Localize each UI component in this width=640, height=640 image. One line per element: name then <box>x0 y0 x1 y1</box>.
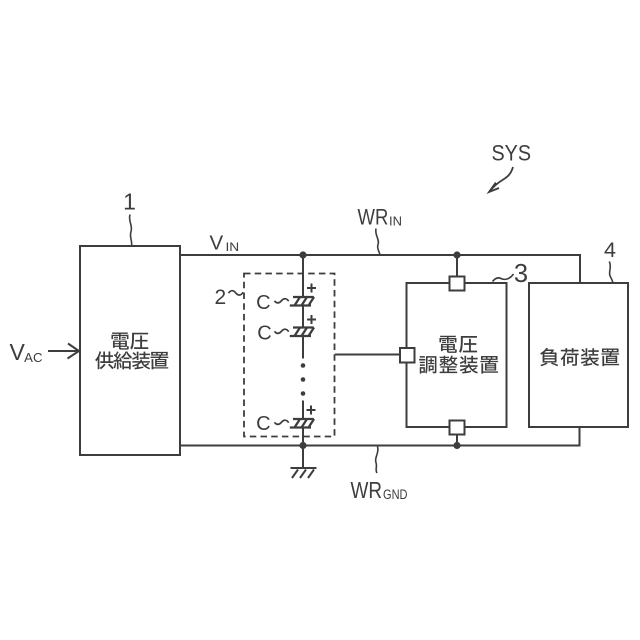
leader squiggle WR_GND <box>376 447 378 474</box>
label 電圧 (box3 line1) <box>439 336 477 353</box>
ground <box>291 468 317 478</box>
wire below capacitor C2 <box>302 336 304 359</box>
arrow V_AC input into box1 <box>48 344 79 359</box>
block 3: voltage adjustment device box <box>407 283 507 427</box>
terminal square top of box3 <box>450 277 465 291</box>
svg-text:C: C <box>257 323 271 345</box>
leader squiggle C3 <box>275 420 289 424</box>
svg-text:4: 4 <box>604 238 616 262</box>
block 1: voltage supply device box <box>80 246 180 455</box>
label 負荷装置 (box4) <box>540 348 619 366</box>
terminal square left of box3 <box>400 348 415 363</box>
arrow SYS pointing to system <box>489 167 513 192</box>
svg-text:SYS: SYS <box>492 141 532 166</box>
leader squiggle C1 <box>275 299 289 303</box>
node bottom bus / box3 junction <box>453 442 460 449</box>
label 供給装置 (box1 line2) <box>95 351 168 369</box>
wire above capacitor C3 <box>302 401 304 420</box>
node V_IN / capacitor chain junction <box>299 251 306 258</box>
svg-text:IN: IN <box>226 240 240 254</box>
label 電圧 (box1 line1) <box>111 332 148 349</box>
svg-text:WR: WR <box>358 205 389 230</box>
capacitor module 2: dashed box <box>244 274 335 437</box>
leader squiggle for 3 <box>493 274 514 282</box>
svg-text:GND: GND <box>383 487 408 502</box>
label 調整装置 (box3 line2) <box>419 356 498 374</box>
wire branch from capacitor module to box3 left terminal <box>335 354 400 356</box>
ellipsis dots indicating repeated capacitors <box>301 363 306 396</box>
wire between capacitor C1 and C2 <box>302 306 304 328</box>
svg-text:C: C <box>256 413 270 435</box>
svg-text:C: C <box>256 292 270 314</box>
leader squiggle C2 <box>275 329 289 333</box>
svg-text:AC: AC <box>24 351 42 365</box>
capacitor C2 <box>290 328 314 337</box>
svg-text:WR: WR <box>351 477 383 503</box>
svg-text:V: V <box>210 232 224 255</box>
block 4: load device box <box>529 283 628 427</box>
wire WR_IN top bus from box1 to box4 <box>180 255 580 283</box>
terminal square bottom of box3 <box>450 421 465 435</box>
svg-text:IN: IN <box>389 214 402 228</box>
plus polarity mark C1 <box>307 284 316 293</box>
wire ground stub <box>302 446 304 468</box>
svg-text:V: V <box>10 339 26 365</box>
wire below capacitor C3 to ground bus <box>302 428 304 446</box>
wire capacitor chain top segment <box>302 255 304 297</box>
leader squiggle for 2 <box>229 291 244 295</box>
leader squiggle for 4 <box>609 262 613 283</box>
capacitor C3 <box>290 419 314 428</box>
node top bus / box3 junction <box>453 251 460 258</box>
svg-text:2: 2 <box>214 286 226 309</box>
svg-text:1: 1 <box>123 188 136 214</box>
svg-text:3: 3 <box>514 260 528 288</box>
plus polarity mark C3 <box>307 406 316 415</box>
plus polarity mark C2 <box>307 315 316 324</box>
capacitor C1 <box>290 297 314 306</box>
wire WR_GND bottom bus from box1 to box4 <box>180 427 580 446</box>
node ground bus / capacitor chain junction <box>299 442 306 449</box>
wire box3 bottom terminal stub <box>456 435 458 446</box>
leader squiggle for 1 <box>130 215 132 246</box>
wire box3 top terminal stub <box>456 255 458 277</box>
leader squiggle WR_IN <box>376 229 380 255</box>
